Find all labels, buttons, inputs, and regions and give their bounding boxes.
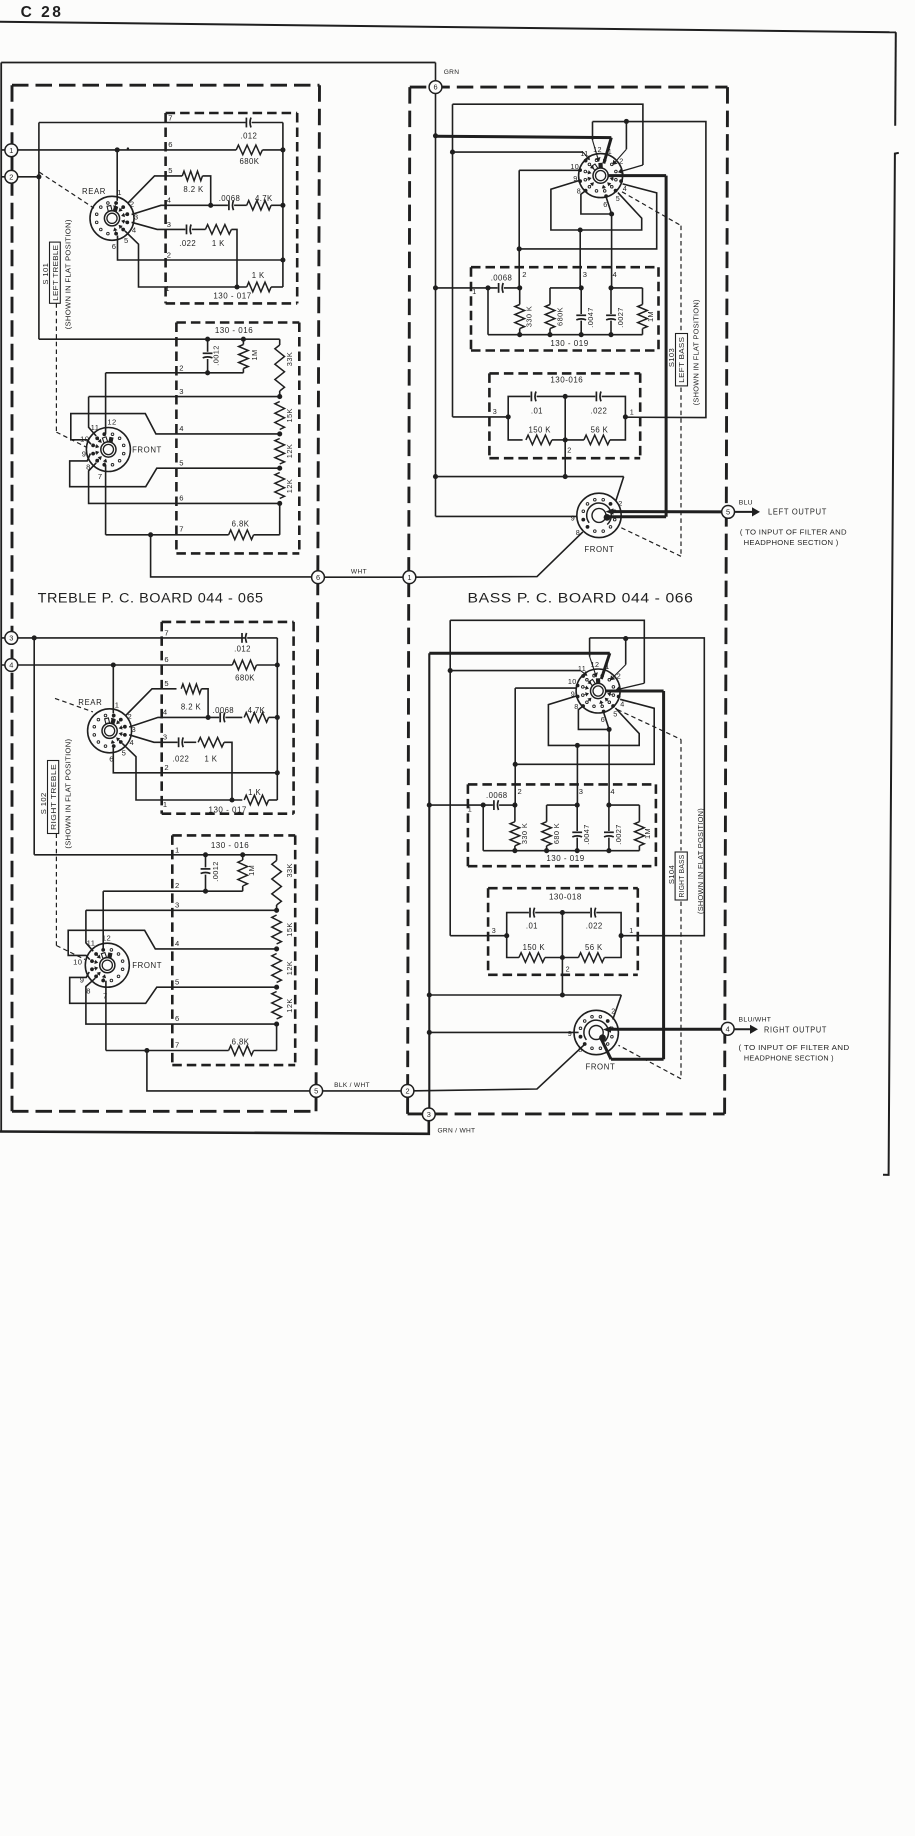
svg-text:15K: 15K bbox=[285, 922, 294, 936]
capacitor .01 bass-top bbox=[530, 392, 532, 402]
svg-text:.0012: .0012 bbox=[212, 345, 221, 366]
junction dot bridge top center bass-bottom bbox=[560, 910, 565, 915]
wire pin5 hook-path treble-bottom bbox=[70, 972, 277, 1003]
thick output to node4 with arrow S104 bbox=[609, 1028, 728, 1031]
wire pin3 drop to terminal11 bbox=[89, 397, 97, 436]
svg-text:1 K: 1 K bbox=[212, 239, 225, 248]
junction dot terminal6/8 S104 bbox=[607, 727, 612, 732]
svg-text:3: 3 bbox=[579, 787, 584, 796]
wire pin4 from terminal3 S102 bbox=[129, 717, 219, 727]
junction dot pin7 output tap treble-bottom bbox=[144, 1048, 149, 1053]
rotary switch S102 FRONT bbox=[85, 943, 129, 987]
svg-text:4.7K: 4.7K bbox=[255, 194, 273, 203]
svg-text:.01: .01 bbox=[526, 922, 538, 931]
svg-text:130 - 017: 130 - 017 bbox=[209, 805, 247, 814]
wire terminal8 path S104 bbox=[578, 707, 609, 730]
svg-text:(SHOWN IN FLAT POSITION): (SHOWN IN FLAT POSITION) bbox=[64, 738, 73, 848]
wire center to 56K bass-top bbox=[565, 439, 584, 441]
outer enclosure top wire bbox=[1, 62, 435, 64]
GRN riser from top wire bbox=[435, 63, 437, 81]
capacitor .012 S102 bbox=[241, 633, 243, 643]
svg-text:9: 9 bbox=[573, 174, 577, 183]
wire top rail 130-016 treble-top bbox=[39, 338, 280, 340]
wire pin1 from terminal5 S101 bbox=[125, 231, 247, 287]
svg-text:(SHOWN IN FLAT POSITION): (SHOWN IN FLAT POSITION) bbox=[64, 219, 73, 329]
resistor 12K lower treble-top bbox=[275, 473, 285, 499]
svg-text:S 102: S 102 bbox=[39, 792, 48, 814]
svg-text:8: 8 bbox=[576, 528, 580, 537]
svg-text:FRONT: FRONT bbox=[132, 961, 162, 970]
wire 680K to right rail bbox=[262, 149, 283, 151]
wire pin1 into box S104 bbox=[429, 804, 493, 806]
resistor 330K S104 bbox=[514, 805, 516, 822]
svg-text:5: 5 bbox=[616, 194, 620, 203]
svg-text:9: 9 bbox=[568, 1029, 572, 1038]
svg-text:15K: 15K bbox=[285, 408, 294, 422]
svg-text:.0027: .0027 bbox=[616, 307, 625, 328]
svg-text:4: 4 bbox=[612, 270, 617, 279]
svg-text:FRONT: FRONT bbox=[585, 1063, 615, 1072]
svg-text:130-018: 130-018 bbox=[549, 893, 582, 902]
wire 150K to center bass-top bbox=[552, 439, 565, 441]
wire switch terminal1 riser S102 bbox=[112, 665, 114, 713]
junction dot chain pin5 treble-bottom bbox=[274, 985, 279, 990]
svg-text:FRONT: FRONT bbox=[132, 445, 162, 454]
svg-text:6: 6 bbox=[179, 494, 184, 503]
resistor 680K S103 bbox=[549, 288, 551, 305]
svg-text:3: 3 bbox=[175, 900, 180, 909]
svg-text:1: 1 bbox=[115, 701, 120, 710]
wire center tap drop bass-bottom bbox=[561, 913, 563, 995]
wire top link loop S104 bbox=[590, 638, 705, 936]
capacitor .0068 S102 bbox=[219, 713, 221, 723]
resistor 680K S101 bbox=[236, 145, 262, 155]
junction dot bridge bottom center bass-bottom bbox=[560, 955, 565, 960]
svg-text:.022: .022 bbox=[591, 407, 608, 416]
wire terminal9 feed bass-bottom bbox=[429, 1031, 578, 1033]
svg-text:5: 5 bbox=[124, 236, 129, 245]
resistor 1M S103 bbox=[642, 288, 644, 305]
svg-text:150 K: 150 K bbox=[529, 426, 552, 435]
wire pin4 from terminal3 S101 bbox=[132, 205, 228, 214]
S104 dashed gang leader bbox=[617, 710, 681, 740]
svg-text:4: 4 bbox=[132, 225, 137, 234]
svg-text:2: 2 bbox=[130, 200, 135, 209]
outer enclosure left wire bbox=[0, 63, 2, 1133]
node4 BLU/WHT arrow bbox=[734, 1028, 750, 1030]
S102 dashed leader to REAR switch bbox=[55, 698, 93, 712]
wire terminal9-to-terminal5 path S104 bbox=[548, 696, 639, 746]
junction dot pin7 output tap bbox=[148, 532, 153, 537]
thick wiper feed wire S104 bbox=[429, 652, 610, 655]
svg-text:5: 5 bbox=[175, 977, 180, 986]
wire second riser S104 bbox=[449, 620, 451, 935]
svg-text:4: 4 bbox=[163, 708, 168, 717]
svg-text:10: 10 bbox=[568, 677, 577, 686]
svg-text:6: 6 bbox=[316, 573, 320, 582]
node 3 left edge bbox=[5, 632, 18, 645]
junction dot on pin6 line bbox=[115, 147, 120, 152]
thick output drop S104 bbox=[662, 691, 665, 1059]
junction dot node3 dropper bbox=[32, 635, 37, 640]
svg-text:6: 6 bbox=[164, 655, 169, 664]
wire terminal11 stub S103 bbox=[453, 151, 584, 153]
svg-text:2: 2 bbox=[127, 712, 132, 721]
svg-text:1: 1 bbox=[407, 573, 411, 582]
svg-text:.0068: .0068 bbox=[486, 791, 508, 800]
junction dot pin2 drop S104 bbox=[513, 762, 518, 767]
inner box 130-017 S101 bbox=[166, 112, 298, 115]
inner box 130-017 S102 bbox=[162, 621, 294, 624]
wire cap .0068 to 4.7K S102 bbox=[225, 716, 242, 718]
junction dot center tap bbox=[563, 474, 568, 479]
svg-text:.0068: .0068 bbox=[491, 274, 513, 283]
svg-text:680K: 680K bbox=[556, 307, 565, 326]
wire node2 stub bbox=[1, 176, 39, 178]
svg-text:2: 2 bbox=[164, 763, 169, 772]
svg-text:7: 7 bbox=[175, 1041, 180, 1050]
junction dot chain pin3 treble-bottom bbox=[274, 908, 279, 913]
svg-text:BASS P. C. BOARD 044 - 066: BASS P. C. BOARD 044 - 066 bbox=[468, 590, 694, 605]
svg-text:130 - 019: 130 - 019 bbox=[546, 854, 584, 863]
svg-text:33K: 33K bbox=[285, 863, 294, 877]
svg-text:12: 12 bbox=[593, 145, 602, 154]
bass board dashed box left edge bbox=[408, 87, 410, 1114]
svg-text:3: 3 bbox=[427, 1110, 431, 1119]
node 2 bass left edge BLK/WHT bbox=[401, 1085, 414, 1098]
svg-text:( TO INPUT OF FILTER AND: ( TO INPUT OF FILTER AND bbox=[739, 1043, 850, 1052]
svg-text:LEFT TREBLE: LEFT TREBLE bbox=[51, 245, 60, 301]
node 3 bass bottom GRN/WHT bbox=[422, 1108, 435, 1121]
svg-text:1M: 1M bbox=[646, 311, 655, 322]
resistor 330K S103 bbox=[519, 288, 521, 305]
wire pin2 line treble-bottom bbox=[103, 890, 243, 892]
wire terminal4 path S103 bbox=[519, 184, 657, 249]
wire below-box link bass-bottom bbox=[429, 994, 621, 996]
wire left drop riser S102 bbox=[33, 638, 35, 855]
wire pin2 from terminal6 S102 bbox=[113, 748, 277, 773]
resistor 56K bass-bottom bbox=[578, 953, 604, 963]
rotary switch S104 output FRONT bbox=[574, 1010, 618, 1054]
bass board dashed box right edge bbox=[725, 87, 728, 1114]
svg-text:.022: .022 bbox=[179, 239, 196, 248]
svg-text:12: 12 bbox=[107, 418, 116, 427]
svg-text:.012: .012 bbox=[241, 132, 258, 141]
wire bridge top branch bass-top bbox=[508, 396, 530, 417]
junction dot pin1 S102 bbox=[229, 797, 234, 802]
wire pin1 top rail treble-bottom bbox=[34, 854, 276, 856]
wire terminal12 feed S103 bbox=[592, 122, 594, 141]
wire pin3 into box bass-bottom bbox=[450, 935, 507, 937]
svg-text:2: 2 bbox=[167, 250, 172, 259]
stray small dot on pin6 line bbox=[127, 147, 129, 149]
resistor 12K upper treble-top bbox=[275, 439, 285, 465]
svg-text:2: 2 bbox=[618, 499, 622, 508]
treble board dashed box right edge bbox=[316, 85, 320, 1111]
svg-text:11: 11 bbox=[87, 939, 96, 948]
wire pin6 from terminal8 treble-bottom bbox=[86, 978, 277, 1024]
wire 6.8K to chain treble-bottom bbox=[254, 1050, 277, 1052]
junction dots bottom rail S104 bbox=[512, 848, 517, 853]
svg-text:1: 1 bbox=[605, 662, 609, 671]
S101 dashed gang diagonal to FRONT switch bbox=[56, 432, 87, 447]
thick output wire S103 bbox=[608, 174, 667, 177]
wire terminal7 drop treble-top bbox=[105, 465, 107, 535]
svg-text:RIGHT BASS: RIGHT BASS bbox=[677, 855, 686, 898]
svg-text:680 K: 680 K bbox=[552, 823, 561, 844]
svg-text:7: 7 bbox=[98, 472, 103, 481]
wire cap .022 to 1K S102 bbox=[184, 741, 196, 743]
svg-text:S 101: S 101 bbox=[41, 263, 50, 285]
wire WHT into terminal8 bass-top bbox=[409, 532, 582, 577]
svg-text:8: 8 bbox=[577, 187, 581, 196]
thick wiper feed diagonal S104 bbox=[601, 653, 610, 679]
wire 6.8K to chain treble-top bbox=[254, 534, 280, 536]
wire cap .012 to right rail S102 bbox=[247, 637, 277, 639]
svg-text:8.2 K: 8.2 K bbox=[183, 185, 204, 194]
wire chain bottom drop treble-top bbox=[279, 503, 281, 534]
svg-text:10: 10 bbox=[570, 162, 579, 171]
inner box 130-016 treble-bottom bbox=[172, 834, 295, 837]
wire pin4 drop into box S104 bbox=[608, 729, 610, 805]
svg-text:130 - 019: 130 - 019 bbox=[550, 339, 588, 348]
wire pin4 drop into box S103 bbox=[611, 214, 613, 288]
wire pin5 from terminal2 S101 bbox=[128, 176, 183, 203]
svg-text:5: 5 bbox=[726, 508, 730, 517]
wire terminal4 path S104 bbox=[515, 699, 654, 764]
wire pin7 line treble-top bbox=[106, 534, 229, 536]
svg-text:7: 7 bbox=[168, 114, 173, 123]
wire 1K to pin1 corner S101 bbox=[231, 229, 237, 287]
capacitor .0068 S103 bbox=[498, 283, 500, 293]
wire terminal3 diagonal with arrow S103 bbox=[623, 165, 643, 171]
S101 dashed leader to REAR switch bbox=[39, 172, 94, 208]
capacitor .0027 S104 bbox=[608, 805, 610, 831]
wire terminal3 diagonal with arrow S104 bbox=[620, 683, 644, 689]
junction dot pin1 S101 bbox=[234, 284, 239, 289]
page top border line bbox=[0, 22, 896, 33]
svg-text:2: 2 bbox=[617, 672, 621, 681]
junction dot pin4 S101 bbox=[208, 203, 213, 208]
treble board dashed box bottom edge bbox=[12, 1110, 316, 1113]
rotary switch S103 output FRONT bbox=[577, 493, 621, 537]
thick output return S104 bbox=[611, 1058, 664, 1061]
capacitor .0047 S104 bbox=[576, 805, 578, 831]
wire cap .0068 to 4.7K bbox=[234, 204, 247, 206]
rotary switch S101 FRONT bbox=[86, 428, 130, 472]
S102 dashed gang line bbox=[55, 834, 57, 946]
svg-text:S103: S103 bbox=[667, 348, 676, 367]
junction dot terminal11 stub S104 bbox=[448, 668, 453, 673]
wire rail left riser S103 bbox=[487, 288, 489, 335]
svg-text:8: 8 bbox=[86, 462, 91, 471]
junction dot terminal1 riser S102 bbox=[111, 662, 116, 667]
svg-text:8: 8 bbox=[86, 987, 91, 996]
svg-text:6: 6 bbox=[601, 715, 605, 724]
junction dots top wire 130-019 S103 bbox=[517, 285, 522, 290]
junction dot chain pin4 treble-bottom bbox=[274, 946, 279, 951]
wire top loop S104 bbox=[450, 620, 644, 683]
S103 LEFT BASS boxed label bbox=[676, 334, 688, 386]
svg-text:(SHOWN IN FLAT POSITION): (SHOWN IN FLAT POSITION) bbox=[696, 808, 705, 914]
wire 1K to right rail bottom S101 bbox=[271, 286, 283, 288]
svg-text:GRN: GRN bbox=[444, 69, 460, 76]
svg-text:1: 1 bbox=[9, 146, 13, 155]
inner box 130-019 S103 bbox=[471, 266, 659, 269]
svg-text:8: 8 bbox=[574, 702, 578, 711]
svg-text:12: 12 bbox=[102, 934, 111, 943]
svg-text:GRN / WHT: GRN / WHT bbox=[438, 1127, 476, 1134]
svg-text:5: 5 bbox=[168, 166, 173, 175]
wire pin3 drop to terminal11 treble-bottom bbox=[86, 910, 93, 951]
wire cap .022 to right node bass-top bbox=[602, 396, 626, 417]
wire cap .022 to 1K bbox=[192, 228, 206, 230]
capacitor .012 S101 bbox=[245, 118, 247, 128]
svg-text:680K: 680K bbox=[239, 157, 259, 166]
bass board dashed box bottom edge bbox=[408, 1112, 725, 1115]
wire bridge bottom branch bass-top bbox=[508, 417, 522, 440]
svg-text:4: 4 bbox=[726, 1024, 730, 1033]
svg-text:7: 7 bbox=[103, 992, 108, 1001]
svg-text:11: 11 bbox=[580, 149, 588, 158]
capacitor .0068 S101 bbox=[228, 200, 230, 210]
junction dot bridge top center bbox=[563, 394, 568, 399]
svg-text:7: 7 bbox=[179, 525, 184, 534]
wire diagonal to out-switch terminal2 bass-top bbox=[616, 477, 624, 501]
wire right rail S101 bbox=[282, 123, 284, 288]
junction dot chain pin3 bbox=[277, 394, 282, 399]
wire pin1 into box S103 bbox=[436, 287, 498, 289]
svg-text:330 K: 330 K bbox=[525, 306, 534, 327]
wire bridge top branch bass-bottom bbox=[507, 913, 529, 936]
wire terminal7 drop treble-bottom bbox=[105, 981, 107, 1051]
resistor 1K pin3 S101 bbox=[205, 225, 231, 235]
svg-text:4.7K: 4.7K bbox=[248, 706, 266, 715]
inner box 130-016 treble-top bbox=[176, 321, 299, 324]
svg-text:.022: .022 bbox=[172, 754, 189, 763]
inner box 130-019 S104 bbox=[468, 783, 656, 786]
svg-text:1M: 1M bbox=[250, 349, 259, 360]
treble board dashed box top edge bbox=[12, 84, 320, 87]
bass board dashed box top edge bbox=[410, 86, 728, 89]
wire BLK/WHT run to node 5 bbox=[147, 1051, 316, 1091]
capacitor .0012 treble-top bbox=[207, 339, 209, 352]
thick wiper feed wire S103 bbox=[436, 136, 612, 137]
wire second riser S103 bbox=[452, 104, 454, 417]
resistor 6.8K treble-bottom bbox=[229, 1046, 254, 1056]
page right border line lower with hook bbox=[883, 153, 899, 1175]
svg-text:9: 9 bbox=[571, 514, 575, 523]
svg-text:10: 10 bbox=[73, 958, 82, 967]
svg-text:1: 1 bbox=[472, 287, 476, 296]
svg-text:9: 9 bbox=[571, 690, 575, 699]
wire 56K to right node bass-top bbox=[610, 417, 626, 440]
wire left loop riser S101 bbox=[38, 123, 40, 340]
svg-text:6: 6 bbox=[168, 140, 173, 149]
svg-text:BLU: BLU bbox=[739, 499, 753, 506]
junction dot pin4 S102 bbox=[206, 715, 211, 720]
svg-text:4: 4 bbox=[9, 661, 13, 670]
svg-text:3: 3 bbox=[163, 733, 168, 742]
wire 150K to center bass-bottom bbox=[545, 957, 563, 959]
svg-text:680K: 680K bbox=[235, 674, 255, 683]
svg-text:130 - 016: 130 - 016 bbox=[215, 326, 253, 335]
svg-text:2: 2 bbox=[567, 446, 571, 455]
node 6 treble edge bbox=[312, 571, 325, 584]
svg-text:9: 9 bbox=[82, 450, 87, 459]
wire 56K to right node bass-bottom bbox=[604, 936, 621, 958]
resistor 1M treble-bottom bbox=[242, 855, 244, 860]
wire terminal10 drop S104 bbox=[514, 688, 516, 764]
junction dot pin2 cap treble-bottom bbox=[203, 889, 208, 894]
node5 BLU arrow bbox=[734, 511, 752, 513]
svg-text:.0027: .0027 bbox=[614, 824, 623, 845]
resistor 15K treble-bottom bbox=[272, 915, 282, 944]
wire pin6 from terminal8 treble-top bbox=[89, 463, 280, 504]
wire terminal9-to-terminal5 path S103 bbox=[551, 181, 642, 231]
thick output drop S103 bbox=[665, 176, 668, 517]
wire below-box link bass-top bbox=[436, 476, 624, 478]
svg-text:2: 2 bbox=[405, 1087, 409, 1096]
S103 dashed gang diagonal to FRONT bbox=[621, 527, 682, 556]
junction dot rail left S103 bbox=[485, 285, 490, 290]
svg-text:1: 1 bbox=[163, 800, 168, 809]
wire switch terminal1 riser S101 bbox=[116, 150, 118, 201]
wire BLK/WHT into terminal8 bass-bottom bbox=[408, 1045, 584, 1091]
junction dots right rail S101 bbox=[280, 147, 285, 152]
svg-text:RIGHT OUTPUT: RIGHT OUTPUT bbox=[764, 1024, 827, 1034]
resistor 1K pin3 S102 bbox=[198, 738, 224, 748]
svg-text:4: 4 bbox=[167, 196, 172, 205]
thick output to node5 with arrow S103 bbox=[612, 510, 728, 513]
svg-text:1 K: 1 K bbox=[252, 271, 265, 280]
wire center tap drop bass-top bbox=[564, 396, 566, 476]
svg-text:.022: .022 bbox=[586, 922, 603, 931]
wire pin2 from terminal6 S101 bbox=[118, 236, 283, 261]
wire WHT run to node 6 bbox=[151, 535, 318, 577]
junction dots bottom rail S103 bbox=[517, 332, 522, 337]
resistor 150K bass-bottom bbox=[519, 953, 545, 963]
wire terminal6 link S103 bbox=[606, 195, 612, 214]
junction dot pin1 node bass-bottom bbox=[619, 933, 624, 938]
junction dot pin2 drop S103 bbox=[517, 246, 522, 251]
svg-text:REAR: REAR bbox=[82, 187, 106, 196]
svg-text:8: 8 bbox=[578, 1045, 582, 1054]
S104 dashed gang line lower bbox=[680, 902, 682, 1079]
svg-text:LEFT OUTPUT: LEFT OUTPUT bbox=[768, 507, 827, 517]
svg-text:6: 6 bbox=[175, 1014, 180, 1023]
thick output wire S104 bbox=[605, 690, 664, 693]
inner box 130-018 bass-bottom bbox=[488, 887, 638, 890]
wire pin7 line S101 bbox=[39, 122, 246, 124]
svg-text:3: 3 bbox=[167, 220, 172, 229]
svg-text:LEFT BASS: LEFT BASS bbox=[677, 337, 686, 383]
svg-text:.0012: .0012 bbox=[211, 861, 220, 882]
node 2 left edge bbox=[5, 170, 18, 183]
S103 dashed gang line lower bbox=[680, 388, 682, 557]
svg-text:33K: 33K bbox=[285, 352, 294, 366]
resistor 1K pin1 S101 bbox=[247, 282, 271, 292]
svg-text:12K: 12K bbox=[285, 998, 294, 1012]
svg-text:5: 5 bbox=[122, 749, 127, 758]
junction dot terminal11 stub S103 bbox=[450, 150, 455, 155]
capacitor .0027 S103 bbox=[610, 288, 612, 314]
svg-text:130-016: 130-016 bbox=[550, 376, 583, 385]
svg-text:BLK / WHT: BLK / WHT bbox=[334, 1082, 370, 1089]
svg-text:.0047: .0047 bbox=[582, 824, 591, 845]
junction dot bridge bottom center bbox=[563, 437, 568, 442]
wire top link loop S103 bbox=[593, 122, 706, 418]
